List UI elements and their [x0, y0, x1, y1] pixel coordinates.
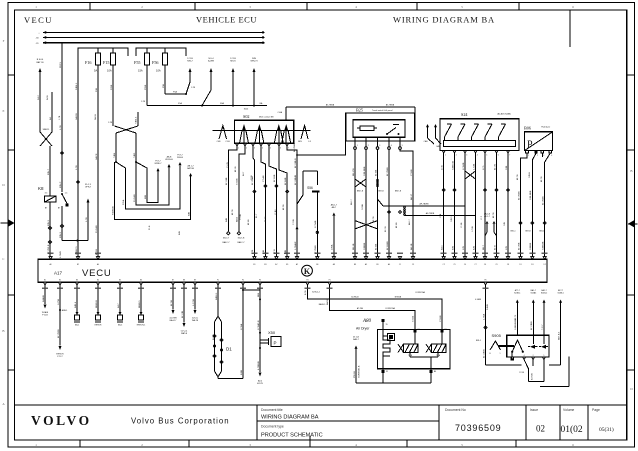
- ECU A17 VECU: [38, 259, 547, 282]
- splice rail: [147, 102, 267, 111]
- svg-text:AT-7B4B: AT-7B4B: [386, 167, 389, 176]
- svg-text:B5: B5: [286, 264, 288, 266]
- svg-text:AT-7B: AT-7B: [231, 209, 234, 215]
- svg-text:B-BB: B-BB: [241, 369, 243, 375]
- VECU top pin C1: [398, 257, 401, 266]
- wire S02 pin 3 to VECU: [251, 146, 256, 257]
- svg-text:1: 1: [357, 145, 358, 147]
- VECU top pin A6: [387, 257, 390, 266]
- svg-text:17-5B: 17-5B: [519, 372, 525, 374]
- VECU top pin D3: [531, 257, 534, 266]
- svg-text:4: 4: [477, 155, 478, 157]
- svg-text:7: 7: [288, 148, 289, 150]
- svg-text:1-7B: 1-7B: [86, 217, 88, 222]
- svg-text:C4B-B: C4B-B: [529, 171, 531, 178]
- svg-text:AT-1B: AT-1B: [95, 249, 98, 255]
- VECU top pin C2: [442, 257, 445, 266]
- S24 switch element 5: [499, 124, 506, 141]
- svg-text:B9: B9: [376, 264, 378, 266]
- ground return arrow BAK-7: [353, 337, 431, 384]
- svg-text:C4BBB: C4BBB: [364, 242, 366, 250]
- S02 pin triangle: [268, 143, 271, 146]
- svg-text:2: 2: [537, 155, 538, 157]
- svg-text:AT-7AB: AT-7AB: [225, 177, 228, 185]
- svg-text:F1B/B4B: F1B/B4B: [112, 206, 114, 215]
- svg-text:C-BA: C-BA: [277, 111, 282, 114]
- svg-text:1: 1: [500, 353, 501, 355]
- svg-text:(A5 A2/5 S2AB): (A5 A2/5 S2AB): [497, 113, 511, 116]
- svg-text:A-WM: A-WM: [208, 60, 214, 63]
- svg-text:WIRE-7: WIRE-7: [155, 163, 163, 165]
- svg-text:SA-1B: SA-1B: [94, 114, 97, 120]
- svg-text:AT-B4B: AT-B4B: [284, 177, 287, 185]
- switch unit S905: [492, 333, 550, 357]
- off-page arrow AB-7 mid: [331, 204, 338, 257]
- fuse F15: [103, 48, 116, 73]
- svg-text:VOLVO: VOLVO: [31, 413, 92, 428]
- S905 diode left 1: [528, 335, 538, 348]
- svg-text:OPR-7: OPR-7: [85, 187, 92, 189]
- svg-text:F56: F56: [152, 60, 159, 65]
- wire B06 pin4 to VECU: [511, 153, 551, 257]
- wire VECU to A80 lower: [319, 285, 415, 330]
- svg-text:10A: 10A: [156, 69, 161, 73]
- svg-text:17-5AB: 17-5AB: [314, 220, 317, 228]
- svg-text:4: 4: [524, 355, 525, 357]
- twisted pair crossover B25 a: [355, 179, 366, 187]
- VECU bottom pin F1: [216, 280, 219, 286]
- svg-text:Multi contact BB: Multi contact BB: [259, 116, 274, 119]
- arrows into S24: [424, 124, 441, 148]
- svg-text:AT-BB: AT-BB: [374, 169, 377, 176]
- svg-text:AT-74BB: AT-74BB: [530, 321, 533, 330]
- B25 pin 3: [376, 137, 380, 149]
- VECU bottom pin E2: [58, 280, 61, 286]
- svg-text:BA4C-7: BA4C-7: [237, 241, 245, 244]
- VECU top pin D2: [543, 257, 546, 266]
- document number cell: [445, 408, 501, 433]
- svg-text:2: 2: [456, 155, 457, 157]
- svg-text:MIN-C: MIN-C: [60, 181, 62, 188]
- svg-text:M4-7-7: M4-7-7: [223, 238, 230, 240]
- svg-text:TR-brd pre: TR-brd pre: [541, 126, 550, 129]
- svg-text:AB-17: AB-17: [410, 193, 413, 200]
- twisted pair crossover S24: [465, 171, 476, 179]
- svg-text:7: 7: [509, 155, 510, 157]
- twisted pair crossover B25 b: [377, 179, 379, 187]
- svg-text:6: 6: [280, 148, 281, 150]
- A80 internal bottom wire: [410, 357, 438, 369]
- power bus line 15: [35, 36, 264, 39]
- svg-text:AT-4B: AT-4B: [395, 222, 398, 228]
- svg-text:BAT-5B: BAT-5B: [187, 167, 194, 170]
- pin labels below VECU: [42, 287, 489, 289]
- wire B06 pin3 stub: [541, 153, 543, 157]
- VECU bottom pin E8: [182, 280, 185, 286]
- svg-text:15A: 15A: [138, 69, 143, 73]
- S02 internal pin 3: [274, 124, 283, 143]
- wire to relay coil: [45, 146, 50, 196]
- svg-text:B4B: B4B: [188, 211, 190, 216]
- svg-text:BB-17B: BB-17B: [353, 168, 355, 176]
- svg-text:AB 1-7: AB 1-7: [188, 165, 195, 168]
- svg-text:17-BA: 17-BA: [240, 323, 243, 330]
- svg-text:A6: A6: [388, 263, 390, 266]
- wire S24 pin 2 to VECU: [452, 151, 456, 257]
- svg-text:2: 2: [368, 145, 369, 147]
- svg-text:1-7BA: 1-7BA: [482, 313, 485, 320]
- svg-text:VEHICLE ECU: VEHICLE ECU: [196, 15, 257, 25]
- svg-text:AT-7B: AT-7B: [492, 212, 495, 218]
- svg-text:17-B4B: 17-B4B: [463, 162, 465, 170]
- A80 bottom terminals: [381, 369, 436, 373]
- svg-text:AT-74B: AT-74B: [181, 310, 184, 318]
- S905 diode left 2: [539, 335, 548, 348]
- svg-text:17-5: 17-5: [483, 165, 485, 170]
- svg-text:T-C-7: T-C-7: [542, 324, 544, 330]
- wire relay contact down: [60, 206, 88, 258]
- svg-text:17-BA5: 17-BA5: [257, 322, 260, 330]
- svg-text:P: P: [527, 140, 533, 151]
- svg-text:S-B4B: S-B4B: [487, 304, 489, 310]
- right centering arrow: [628, 220, 638, 227]
- loop wire U2 to arrow WIG-B: [116, 155, 184, 209]
- S24 switch element 3: [472, 124, 479, 141]
- svg-text:R4-B: R4-B: [47, 95, 49, 100]
- svg-text:AF-7BWB: AF-7BWB: [420, 203, 430, 206]
- svg-text:A1: A1: [417, 328, 419, 331]
- issue cell: [530, 408, 545, 434]
- svg-text:D1: D1: [519, 264, 521, 266]
- wire S02 pin 7 to VECU: [287, 146, 297, 204]
- S02 internal pin 2: [255, 124, 264, 143]
- svg-text:PRODUCT SCHEMATIC: PRODUCT SCHEMATIC: [261, 433, 323, 439]
- svg-text:T4B5: T4B5: [134, 152, 136, 158]
- VECU bottom pin F5: [328, 280, 331, 286]
- svg-text:F1: F1: [217, 280, 219, 282]
- svg-text:C8: C8: [507, 264, 509, 266]
- svg-text:WAT-B: WAT-B: [181, 332, 188, 335]
- wire B06 pin2 to VECU: [530, 153, 536, 256]
- svg-text:AF-7BRB: AF-7BRB: [426, 212, 435, 215]
- svg-text:Document title: Document title: [261, 408, 283, 412]
- svg-text:2: 2: [246, 148, 247, 150]
- VECU bottom pin F4: [306, 280, 309, 286]
- svg-text:17-B: 17-B: [442, 165, 444, 170]
- svg-text:SBAT-1: SBAT-1: [43, 128, 51, 131]
- VECU top pin B5: [286, 257, 289, 266]
- S24 switch element 1: [445, 124, 452, 141]
- wire return branch: [240, 285, 260, 379]
- B06 pin numbers: [528, 155, 552, 157]
- svg-text:17-B: 17-B: [440, 213, 442, 218]
- VECU top pin B9: [376, 257, 379, 266]
- svg-text:D1: D1: [226, 347, 232, 352]
- crossover to loop feeds: [115, 112, 138, 133]
- fuse holder bracket 2: [136, 48, 186, 56]
- A80 heater element: [383, 330, 395, 369]
- svg-text:BB4B-5: BB4B-5: [139, 300, 141, 308]
- svg-text:3.5: 3.5: [45, 193, 48, 195]
- svg-text:C2: C2: [443, 264, 445, 266]
- svg-text:S24B-2: S24B-2: [541, 293, 547, 295]
- svg-text:F4: F4: [306, 280, 308, 282]
- svg-text:BB7-B: BB7-B: [525, 231, 531, 233]
- svg-text:F3: F3: [259, 280, 261, 282]
- svg-text:D2: D2: [544, 264, 546, 266]
- svg-text:F5: F5: [329, 280, 331, 282]
- page cell: [592, 408, 614, 433]
- VECU top pin C6: [483, 257, 486, 266]
- svg-text:B4B-4: B4B-4: [75, 301, 77, 308]
- fuse F56: [152, 48, 168, 73]
- svg-text:S24B-1: S24B-1: [514, 293, 520, 295]
- svg-text:F1-B: F1-B: [149, 225, 151, 230]
- svg-text:A80: A80: [362, 319, 372, 324]
- svg-text:B-7B-2-2: B-7B-2-2: [312, 292, 320, 294]
- off-page arrow S24A5: [530, 289, 536, 335]
- svg-text:A8: A8: [333, 263, 335, 266]
- svg-text:B6: B6: [316, 264, 318, 266]
- svg-text:NIN-7: NIN-7: [187, 61, 193, 63]
- small arrows AF: [484, 213, 497, 237]
- VECU top pin A3: [364, 257, 367, 266]
- off-page arrow S24B-2: [541, 289, 547, 335]
- svg-text:WIRING DIAGRAM BA: WIRING DIAGRAM BA: [393, 15, 495, 25]
- svg-text:F5B: F5B: [163, 83, 165, 88]
- wire B25 pin 3 to VECU: [374, 149, 377, 256]
- S905 bottom loop wire: [519, 360, 544, 382]
- svg-text:C1-B: C1-B: [225, 141, 230, 143]
- off-page arrow F OPR: [85, 184, 92, 241]
- svg-text:B4B: B4B: [226, 217, 228, 222]
- svg-text:B S4.4: B S4.4: [37, 59, 44, 61]
- VECU top pin B3: [264, 257, 267, 266]
- svg-text:B7: B7: [45, 208, 47, 210]
- svg-text:MIN-5: MIN-5: [48, 219, 50, 226]
- svg-text:C7-BB: C7-BB: [237, 178, 239, 185]
- svg-text:E5: E5: [119, 280, 121, 282]
- svg-text:3: 3: [543, 155, 544, 157]
- S02 right pin: [298, 126, 311, 144]
- junction diamonds B25: [357, 191, 402, 214]
- svg-text:B8: B8: [354, 264, 356, 266]
- svg-text:VECU: VECU: [82, 268, 112, 279]
- svg-text:A7: A7: [275, 263, 277, 266]
- svg-text:B-75/B: B-75/B: [532, 373, 534, 380]
- VECU bottom pin F3: [258, 280, 261, 286]
- VECU bottom pin E6: [139, 280, 142, 286]
- svg-text:1-C-5B: 1-C-5B: [193, 299, 195, 306]
- left centering arrow: [1, 220, 15, 227]
- svg-text:AF-1-7: AF-1-7: [484, 215, 490, 218]
- svg-text:BA4-B: BA4-B: [326, 299, 329, 305]
- svg-text:B7: B7: [58, 208, 60, 210]
- svg-text:1-7B: 1-7B: [59, 115, 61, 120]
- svg-text:E: E: [3, 109, 5, 113]
- splice terminal M4-5: [117, 285, 123, 327]
- off-page arrow S24B-1: [514, 289, 520, 335]
- S24 pin numbers: [445, 155, 510, 157]
- VECU top pin A4: [96, 257, 99, 266]
- connector X50: [260, 330, 281, 347]
- svg-text:1-7B: 1-7B: [76, 165, 78, 170]
- svg-text:X50: X50: [268, 330, 276, 335]
- S02 pin triangle: [260, 143, 263, 146]
- off-page arrow NO-4: [202, 58, 214, 106]
- svg-text:F16: F16: [85, 60, 92, 65]
- svg-text:C4BBB: C4BBB: [530, 242, 532, 250]
- svg-text:C7-AB: C7-AB: [262, 175, 265, 182]
- svg-text:AT-7B4B: AT-7B4B: [517, 191, 520, 200]
- svg-text:1: 1: [238, 148, 239, 150]
- svg-text:WIRING DIAGRAM BA: WIRING DIAGRAM BA: [261, 415, 319, 421]
- svg-text:CORRONA: CORRONA: [415, 291, 425, 294]
- wire B25 pin 1 to VECU: [353, 149, 355, 256]
- svg-text:B7B: B7B: [452, 245, 454, 250]
- power bus line 30: [38, 31, 264, 34]
- svg-text:C4BB-5B: C4BB-5B: [452, 160, 454, 170]
- wire to arrow FT-17: [56, 285, 67, 358]
- svg-text:F1-1 F: F1-1 F: [85, 184, 92, 186]
- VECU top pin C4: [463, 257, 466, 266]
- svg-text:Document type: Document type: [261, 425, 284, 429]
- svg-text:15: 15: [385, 324, 387, 326]
- A80 solenoid valve 2: [426, 333, 446, 358]
- S02 pin triangle: [286, 143, 289, 146]
- S02 top feed wire: [277, 104, 415, 121]
- S02 left pin: [217, 126, 231, 144]
- VECU bottom pin E5: [118, 280, 121, 286]
- svg-text:S24B-5: S24B-5: [557, 293, 563, 295]
- loop wire U1 to arrow BAT-5B: [112, 162, 194, 220]
- svg-text:E8: E8: [183, 280, 185, 282]
- svg-text:C7-B: C7-B: [251, 175, 253, 180]
- svg-text:S905: S905: [492, 333, 502, 338]
- S905 bottom pins: [511, 355, 545, 360]
- VECU top pin C7: [474, 257, 477, 266]
- svg-text:AT-7B4B: AT-7B4B: [293, 143, 296, 152]
- svg-text:BB-1B: BB-1B: [353, 243, 355, 250]
- off-page arrow MICS: [230, 58, 236, 106]
- S02 pin triangle: [252, 143, 255, 146]
- S02 pin triangle: [244, 143, 247, 146]
- svg-text:2: 2: [533, 355, 534, 357]
- svg-text:Page: Page: [592, 408, 600, 412]
- wire to arrow BA4-17: [169, 285, 177, 322]
- wire F16 to VECU: [95, 65, 98, 257]
- svg-text:C4B: C4B: [504, 221, 506, 226]
- svg-text:17B: 17B: [463, 246, 465, 250]
- VECU top pin B2: [76, 257, 79, 266]
- svg-text:17-B4: 17-B4: [275, 209, 277, 215]
- svg-text:AB-1-7: AB-1-7: [331, 204, 338, 207]
- svg-text:FT-1B: FT-1B: [42, 315, 48, 317]
- VECU top pin C5: [453, 257, 456, 266]
- svg-text:5: 5: [486, 155, 487, 157]
- svg-text:F15A: F15A: [122, 199, 125, 205]
- VECU bottom pin E9: [193, 280, 196, 286]
- wire S02 to B25 housing: [293, 141, 346, 156]
- svg-text:B25: B25: [356, 108, 363, 113]
- svg-text:F1-N4B: F1-N4B: [96, 225, 98, 233]
- svg-text:E3: E3: [76, 280, 78, 282]
- svg-text:5A: 5A: [94, 69, 97, 73]
- svg-text:AT-7BB: AT-7BB: [517, 242, 520, 250]
- wire S02 pin 4 to VECU: [261, 146, 267, 257]
- S56 splice branch: [294, 158, 320, 257]
- svg-text:AT-1BB: AT-1BB: [273, 174, 276, 182]
- svg-text:AT-7BRA: AT-7BRA: [326, 104, 335, 107]
- svg-text:BB-7: BB-7: [483, 244, 485, 250]
- wire S24 pin 6 to VECU: [493, 151, 498, 257]
- svg-text:MICS: MICS: [230, 61, 236, 63]
- svg-text:A17: A17: [54, 271, 63, 276]
- svg-text:AT-B: AT-B: [493, 245, 496, 250]
- svg-text:AT-7B4B: AT-7B4B: [542, 196, 545, 205]
- svg-text:01(02: 01(02: [561, 424, 583, 435]
- svg-text:C4: C4: [464, 264, 466, 266]
- svg-text:AT-7B4: AT-7B4: [357, 307, 363, 310]
- svg-text:B1: B1: [253, 264, 255, 266]
- svg-text:BB1-1: BB1-1: [511, 231, 516, 233]
- svg-text:F15: F15: [103, 60, 110, 65]
- svg-text:BA4B-5: BA4B-5: [319, 303, 326, 306]
- svg-text:WA-7B: WA-7B: [192, 319, 199, 322]
- svg-text:C-5: C-5: [308, 141, 311, 143]
- svg-text:1.5: 1.5: [65, 193, 68, 195]
- svg-text:D3: D3: [531, 264, 533, 266]
- svg-text:K8: K8: [38, 186, 44, 191]
- B25 pin 4: [388, 137, 392, 149]
- S02 pin numbers: [238, 148, 289, 150]
- fuse holder bracket 1: [78, 48, 128, 56]
- svg-text:B4-1B: B4-1B: [213, 334, 215, 340]
- svg-text:BAK-7: BAK-7: [353, 338, 360, 341]
- A80 terminal 15: [381, 319, 387, 330]
- svg-text:17BA: 17BA: [331, 244, 334, 250]
- svg-text:C4B: C4B: [506, 165, 508, 170]
- svg-text:BB7-B-5: BB7-B-5: [558, 331, 560, 340]
- VECU top pin C3: [411, 257, 414, 266]
- wire to arrow FT-1B: [42, 285, 49, 317]
- wire F55 to rail: [141, 65, 147, 106]
- svg-text:ISIN: ISIN: [252, 58, 257, 60]
- svg-text:17-1B: 17-1B: [230, 58, 236, 60]
- loop feed wire A: [114, 133, 117, 163]
- svg-text:AT-4B: AT-4B: [247, 219, 250, 225]
- svg-text:B4B: B4B: [179, 231, 181, 235]
- VECU top pin C9: [495, 257, 498, 266]
- svg-text:ERROR: ERROR: [95, 325, 102, 327]
- wire S24 pin 3 to VECU: [463, 151, 467, 257]
- svg-text:PW-1B: PW-1B: [354, 371, 356, 378]
- svg-text:1: 1: [528, 155, 529, 157]
- svg-text:AT-1B: AT-1B: [234, 166, 237, 172]
- svg-text:5: 5: [270, 148, 271, 150]
- wire S24 pin 4 to VECU: [472, 151, 477, 257]
- VECU bottom pin E7: [171, 280, 174, 286]
- svg-text:S24: S24: [461, 112, 468, 117]
- svg-text:F2: F2: [242, 280, 244, 282]
- svg-text:B: B: [630, 169, 632, 173]
- svg-text:1-C4B: 1-C4B: [473, 163, 475, 170]
- svg-text:FT-17: FT-17: [57, 356, 63, 358]
- svg-text:4: 4: [391, 145, 392, 147]
- svg-text:F1B: F1B: [96, 87, 98, 92]
- VECU top pin C8: [506, 257, 509, 266]
- S905 internal contact: [511, 340, 524, 361]
